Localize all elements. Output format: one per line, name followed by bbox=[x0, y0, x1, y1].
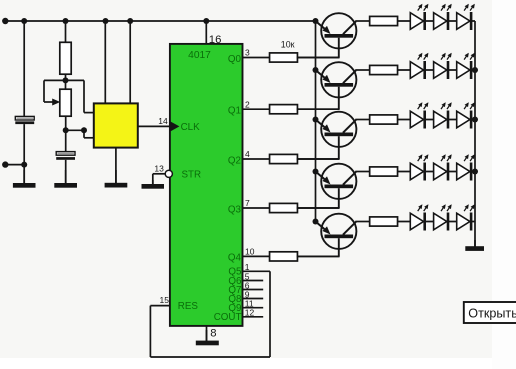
svg-text:Q2: Q2 bbox=[228, 155, 241, 166]
svg-text:Открыть: Открыть bbox=[468, 307, 516, 321]
terminal dot left minus bbox=[2, 161, 8, 167]
resistor R12 LED series bbox=[370, 217, 398, 226]
wire junction to U1 pin a bbox=[66, 80, 95, 112]
wire STR to ground bbox=[153, 174, 165, 185]
resistor R10 LED series bbox=[370, 115, 398, 124]
svg-text:8: 8 bbox=[210, 328, 216, 340]
junction LED rail bbox=[472, 117, 478, 123]
svg-text:Q3: Q3 bbox=[228, 204, 242, 215]
wire Q3 pin to resistor bbox=[243, 207, 270, 209]
wire resistor to base of VT2 bbox=[297, 108, 339, 110]
junction C1/terminal bbox=[21, 162, 27, 168]
capacitor C1 bbox=[15, 116, 34, 124]
svg-text:7: 7 bbox=[245, 198, 250, 208]
svg-text:Q0: Q0 bbox=[228, 54, 242, 65]
resistor R5 10k bbox=[270, 154, 298, 163]
svg-text:10: 10 bbox=[245, 247, 255, 257]
svg-text:STR: STR bbox=[182, 170, 202, 181]
wire junction to left terminal bbox=[5, 164, 24, 166]
LED D3 bbox=[457, 4, 475, 30]
wire pin 12 stub bbox=[243, 316, 264, 318]
ground G1 bbox=[13, 170, 36, 188]
wire emitter rail bbox=[315, 21, 317, 221]
svg-text:COUT: COUT bbox=[214, 312, 242, 323]
wire resistor to LEDs row 3 bbox=[398, 119, 476, 121]
svg-text:13: 13 bbox=[154, 164, 164, 174]
wire resistor to base of VT4 bbox=[297, 207, 339, 209]
wire Q0 pin to resistor bbox=[243, 57, 270, 59]
transistor VT5 bbox=[297, 214, 357, 257]
oscillator U1 bbox=[94, 103, 138, 147]
LED D14 bbox=[434, 204, 452, 230]
junction LED rail bbox=[472, 67, 478, 73]
resistor R8 LED series bbox=[370, 16, 398, 25]
LED D10 bbox=[410, 154, 428, 180]
junction emitter rail bbox=[313, 169, 319, 175]
wire Q1 pin to resistor bbox=[243, 108, 270, 110]
LED D15 bbox=[457, 204, 475, 230]
wire V+ rail bbox=[5, 20, 315, 22]
LED D1 bbox=[410, 4, 428, 30]
svg-text:16: 16 bbox=[209, 34, 222, 46]
junction rail/U1 pin a bbox=[103, 18, 109, 24]
wire collector VT3 to resistor bbox=[355, 119, 369, 121]
resistor R11 LED series bbox=[370, 167, 398, 176]
svg-text:CLK: CLK bbox=[181, 122, 201, 133]
wire junction to U1 pin b bbox=[66, 130, 95, 138]
LED D8 bbox=[434, 102, 452, 128]
svg-text:2: 2 bbox=[245, 99, 250, 109]
wire rail to U1 top pin b bbox=[129, 21, 131, 103]
svg-text:15: 15 bbox=[160, 295, 170, 305]
resistor R7 10k bbox=[270, 252, 298, 261]
wire resistor to LEDs row 2 bbox=[398, 69, 476, 71]
transistor VT3 bbox=[297, 112, 357, 159]
ground G5 bbox=[196, 330, 219, 345]
STR inversion bubble pin 13 bbox=[165, 170, 172, 177]
resistor R9 LED series bbox=[370, 65, 398, 74]
LED D11 bbox=[434, 154, 452, 180]
LED D4 bbox=[410, 53, 428, 79]
wire U1 out to CLK pin 14 bbox=[138, 125, 170, 127]
CLK input triangle bbox=[170, 121, 179, 131]
LED D12 bbox=[457, 154, 475, 180]
wire LED return rail bbox=[474, 21, 476, 247]
junction pot/C2/U1 bbox=[63, 127, 69, 133]
ground G3 bbox=[105, 170, 128, 188]
junction emitter rail bbox=[313, 117, 319, 123]
resistor R6 10k bbox=[270, 203, 298, 212]
wire R1 to pot bbox=[65, 74, 67, 89]
resistor R1 bbox=[60, 42, 71, 74]
LED D6 bbox=[457, 53, 475, 79]
resistor R3 10k bbox=[270, 53, 298, 62]
LED D13 bbox=[410, 204, 428, 230]
ground G6 bbox=[465, 240, 484, 251]
wire RES pin 15 loop to Q5 bbox=[150, 271, 270, 357]
wire pin 11 stub bbox=[243, 307, 264, 309]
svg-text:12: 12 bbox=[245, 308, 255, 318]
transistor VT4 bbox=[297, 164, 357, 208]
wire pin 9 stub bbox=[243, 298, 264, 300]
junction dot at U1 pin b corner bbox=[81, 127, 87, 133]
junction emitter rail bbox=[313, 219, 319, 225]
potentiometer R2 wiper arrow bbox=[44, 80, 66, 105]
wire collector VT1 to resistor bbox=[355, 20, 369, 22]
wire rail to C1 bbox=[23, 21, 25, 117]
transistor VT1 bbox=[297, 13, 357, 57]
capacitor C2 bbox=[56, 152, 75, 160]
wire rail to R1 bbox=[65, 21, 67, 42]
LED D2 bbox=[434, 4, 452, 30]
wire resistor to LEDs row 1 bbox=[398, 20, 476, 22]
wire resistor to base of VT5 bbox=[297, 255, 339, 257]
wire resistor to base of VT1 bbox=[297, 57, 339, 59]
junction LED rail bbox=[472, 169, 478, 175]
ground G4 bbox=[142, 180, 165, 189]
wire resistor to base of VT3 bbox=[297, 158, 339, 160]
svg-text:RES: RES bbox=[178, 301, 199, 312]
LED D7 bbox=[410, 102, 428, 128]
wire collector VT2 to resistor bbox=[355, 69, 369, 71]
junction R1/pot/wiper bbox=[63, 77, 69, 83]
wire resistor to LEDs row 5 bbox=[398, 221, 476, 223]
wire pin 1 stub bbox=[243, 270, 271, 272]
junction rail/pin16 bbox=[203, 18, 209, 24]
svg-text:10к: 10к bbox=[281, 40, 295, 50]
wire rail to U1 top pin a bbox=[104, 21, 106, 103]
junction rail/emitter rail bbox=[313, 18, 319, 24]
junction emitter rail bbox=[313, 67, 319, 73]
svg-text:Q1: Q1 bbox=[228, 106, 241, 117]
junction rail/U1 pin b bbox=[127, 18, 133, 24]
wire pot to C2 bbox=[65, 116, 67, 152]
wire collector VT5 to resistor bbox=[355, 221, 369, 223]
terminal dot V+ left bbox=[2, 18, 8, 24]
ground G2 bbox=[54, 170, 77, 188]
wire pin 16 to rail bbox=[205, 21, 207, 44]
LED D5 bbox=[434, 53, 452, 79]
wire pin 6 stub bbox=[243, 289, 264, 291]
button Otkryt bbox=[464, 302, 516, 323]
wire C1 to ground bbox=[23, 124, 25, 183]
svg-text:3: 3 bbox=[245, 48, 250, 58]
wire pin 8 to ground bbox=[206, 326, 208, 341]
wire C2 to ground bbox=[65, 160, 67, 184]
transistor VT2 bbox=[297, 62, 357, 109]
potentiometer R2 body bbox=[60, 89, 71, 116]
svg-text:4: 4 bbox=[245, 149, 250, 159]
wire resistor to LEDs row 4 bbox=[398, 171, 476, 173]
LED D9 bbox=[457, 102, 475, 128]
wire pin 5 stub bbox=[243, 280, 264, 282]
counter U2 4017 bbox=[170, 44, 243, 326]
wire Q4 pin to resistor bbox=[243, 255, 270, 257]
svg-text:14: 14 bbox=[158, 116, 168, 126]
junction rail/C1 bbox=[21, 18, 27, 24]
wire Q2 pin to resistor bbox=[243, 158, 270, 160]
svg-text:Q4: Q4 bbox=[228, 253, 242, 264]
wire collector VT4 to resistor bbox=[355, 171, 369, 173]
svg-text:4017: 4017 bbox=[188, 50, 211, 61]
junction rail/R1 bbox=[63, 18, 69, 24]
wire U1 to ground bbox=[115, 148, 117, 184]
resistor R4 10k bbox=[270, 105, 298, 114]
